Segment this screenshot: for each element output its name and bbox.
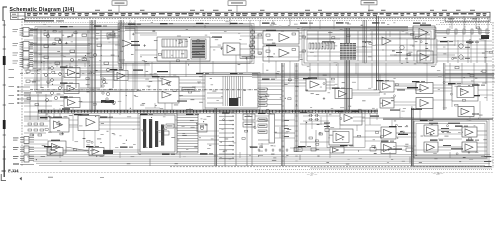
top-right box inner wires xyxy=(307,35,430,52)
far right wiring xyxy=(375,33,455,55)
op-amp IC8A block xyxy=(263,30,299,44)
dark label right xyxy=(474,95,480,96)
center-bottom extra wires xyxy=(300,121,329,151)
label IC4 xyxy=(212,37,222,38)
op-amp triangle x118 xyxy=(114,71,128,81)
bottom dashed line 1 xyxy=(170,166,493,168)
transistor Q21 xyxy=(396,45,404,53)
op-amp IC5 top-mid xyxy=(223,43,240,55)
svg-text:— 27 —: — 27 — xyxy=(307,172,317,176)
dark IC cluster right xyxy=(340,43,356,60)
comb ladder IC12 xyxy=(177,113,198,153)
input connector CN PHONO xyxy=(13,59,34,68)
page number 28 right xyxy=(433,172,443,176)
dark box bottom-left xyxy=(103,150,113,154)
transistor Q22 xyxy=(459,44,470,48)
vertical bundle x282 xyxy=(282,63,285,166)
op-amp block lower xyxy=(329,129,353,145)
horizontal bus B (middle) xyxy=(100,73,494,77)
right mid wiring grid xyxy=(445,63,495,84)
top-center reference box C xyxy=(361,1,377,13)
label under IC6 xyxy=(177,101,187,102)
horizontal bus D (right) xyxy=(383,118,493,119)
bar drop stubs xyxy=(60,17,478,18)
far-left signal labels xyxy=(9,69,41,104)
component box x109 xyxy=(107,33,115,37)
input connector stub (bottom4) xyxy=(13,164,34,165)
op-amp IC7B xyxy=(335,89,352,99)
vertical bundle x444 xyxy=(444,63,445,110)
vertical wires x225-252 xyxy=(225,110,252,166)
block concentric outlines xyxy=(35,24,489,167)
label 60Hz xyxy=(186,109,193,110)
top-left wiring grid xyxy=(33,30,118,88)
resistor array in top-right block xyxy=(309,43,335,49)
vertical dashed bundle right xyxy=(450,19,479,34)
op-amp D1 xyxy=(424,125,438,136)
vertical bundle x215 xyxy=(215,108,217,166)
op-amp bank row1 left xyxy=(380,81,394,92)
mid-left diodes xyxy=(45,66,62,102)
input connector CN TAPE2 xyxy=(13,51,34,60)
connector bar right tail block xyxy=(445,17,490,21)
op-amp D2 xyxy=(424,142,438,152)
label box TONE xyxy=(182,88,195,92)
right side wiring grid xyxy=(437,40,492,63)
bottom wire stubs xyxy=(60,152,450,158)
label between E1 E2 xyxy=(370,116,408,136)
small box B2 xyxy=(162,131,169,135)
op-amp bank row2 left xyxy=(380,98,394,108)
dash-dot line mid-left xyxy=(30,90,258,92)
component pair mid xyxy=(197,124,207,132)
vertical bundle x412 xyxy=(412,108,414,166)
top-right block outline xyxy=(304,29,434,63)
bottom-left dark block xyxy=(140,115,175,152)
page number 27 left xyxy=(307,172,317,176)
narrow tall rect x269 xyxy=(269,114,275,143)
connector table header xyxy=(11,13,26,20)
op-amp F1 bottom-left xyxy=(47,148,63,156)
interconnect wires xyxy=(33,19,487,152)
vertical bundle x365 xyxy=(363,20,366,63)
vertical bundle x296 xyxy=(295,63,298,152)
center block dark IC xyxy=(229,98,238,106)
board outline bottom dotted xyxy=(8,172,493,174)
right edge labels xyxy=(484,156,491,167)
op-amp D3 xyxy=(462,127,477,137)
label IC10 xyxy=(62,108,70,109)
wire junction dots xyxy=(36,37,479,160)
top right boxes of bottom-mid xyxy=(243,114,255,127)
dark label 74LS xyxy=(131,45,140,46)
dark label between op-amps xyxy=(397,87,418,91)
op-amp block TR area xyxy=(340,111,362,125)
op-amp E2 left of box xyxy=(381,143,396,154)
bottom fold mark triangle xyxy=(20,177,105,181)
resistor grid lower-left xyxy=(28,123,44,136)
top-right block wiring xyxy=(307,31,430,61)
resistor row far right xyxy=(447,29,488,34)
label RY04 dash-dot xyxy=(133,70,168,73)
IC4 hatched block xyxy=(191,39,206,59)
op-amp triangle x383 xyxy=(382,37,391,45)
dotted line under MODE SW xyxy=(24,22,135,24)
top connector bar CB1 xyxy=(25,12,490,17)
op-amp A1 xyxy=(64,68,80,78)
relay box K1 xyxy=(162,39,187,47)
top-mid block outline xyxy=(120,25,252,62)
coupling resistors around IC8 xyxy=(258,34,305,54)
connector bar pin labels xyxy=(27,13,486,16)
labels above connector bar xyxy=(95,9,475,12)
op-amp IC9 far right xyxy=(413,25,435,40)
op-amp A3 xyxy=(64,98,80,108)
label XTAL small xyxy=(284,120,289,137)
op-amp F2 bottom-left xyxy=(89,148,104,156)
nested return wires bottom xyxy=(24,155,493,166)
vertical bundle x347 xyxy=(345,28,350,112)
top-left discrete resistors xyxy=(44,33,115,64)
crystal X1 3.579 xyxy=(324,123,330,132)
bottom-left corner crop mark xyxy=(1,174,6,181)
board outline left dashed xyxy=(21,19,23,167)
bottom dashed line 2 xyxy=(255,168,493,170)
bottom-right outer box xyxy=(414,121,487,158)
box with triangle top-right xyxy=(458,107,479,117)
labels right of bus D xyxy=(390,109,422,111)
capacitor pairs center xyxy=(309,114,320,121)
bottom row capacitors xyxy=(258,149,289,153)
mid-left connector stubs xyxy=(17,86,30,104)
transistor Q23 xyxy=(459,55,470,59)
title Schematic Diagram (3/4) xyxy=(10,7,77,13)
op-amp bank row2 right xyxy=(416,98,433,109)
bundle tick marks xyxy=(282,66,298,161)
extra bottom dashes right xyxy=(310,167,492,169)
op-amp bank row1 right xyxy=(416,83,433,94)
right op-amp block xyxy=(452,84,478,101)
rounded label boxes xyxy=(258,118,267,133)
op-amp IC11 xyxy=(48,140,66,153)
right top dashed grid xyxy=(436,16,492,29)
top-center reference box B xyxy=(228,1,246,12)
op-amp A2 xyxy=(64,84,79,94)
input connector CN (bottom2) xyxy=(13,146,34,153)
top-left corner crop mark xyxy=(3,7,7,21)
input connector CN (bottom3) xyxy=(13,155,34,162)
page background xyxy=(0,0,500,182)
bottom row boxes right xyxy=(389,148,463,151)
input connector CN TAPE1 xyxy=(13,42,34,51)
board outline top dashed xyxy=(22,18,490,20)
dual op-amp block IC6 xyxy=(158,77,179,103)
horizontal bus A (top) xyxy=(125,26,490,32)
op-amp IC10B xyxy=(78,114,99,130)
op-amp E1 left of box xyxy=(381,127,396,139)
routing wire mesh xyxy=(24,20,493,152)
dark cluster under xyxy=(101,100,114,103)
center block stub wires xyxy=(207,93,223,103)
IC reference labels xyxy=(40,22,485,154)
label MODE SW (1/3) xyxy=(24,20,64,21)
center block vertical grid xyxy=(223,76,243,106)
bottom vertical joins xyxy=(150,155,410,167)
dark component blob far right xyxy=(481,35,489,39)
dash-dot feeder to bus B xyxy=(20,73,95,75)
vertical pair x377 xyxy=(377,16,379,90)
relay box K2 xyxy=(162,50,187,58)
op-amp IC10A xyxy=(50,117,69,132)
board outline right dashed xyxy=(492,22,494,168)
top-left block outline xyxy=(37,28,135,90)
scattered discrete components xyxy=(45,27,492,157)
left lower wiring xyxy=(24,93,52,121)
mid connector label boxes xyxy=(258,88,282,106)
value label scatter 2 xyxy=(27,21,489,164)
op-amp IC9B xyxy=(417,51,433,63)
top-center reference box A xyxy=(112,1,127,12)
svg-text:— 28 —: — 28 — xyxy=(433,172,443,176)
vertical bundle x120 xyxy=(119,20,123,70)
capacitor dots mid xyxy=(102,78,108,100)
input connector CN AUX (top) xyxy=(13,28,34,37)
op-amp IC8B block xyxy=(263,45,299,61)
top-left transistors xyxy=(44,34,109,99)
labels in bottom-right box xyxy=(429,123,460,146)
bottom horizontal wire band xyxy=(0,0,1,1)
vertical bundle x90 xyxy=(90,20,96,112)
left margin ruler xyxy=(2,20,6,177)
center block outline xyxy=(205,74,258,108)
input connector CN (bottom1) xyxy=(13,137,34,144)
small value labels scatter xyxy=(30,24,487,163)
op-amp IC7A xyxy=(306,78,326,91)
ladder rungs right of x219 xyxy=(219,111,234,159)
bottom row mid components xyxy=(294,147,389,154)
resistor chain x251 xyxy=(251,29,255,58)
svg-text:F-114: F-114 xyxy=(8,168,19,173)
op-amp small x130 xyxy=(122,40,139,47)
labels in top-right block xyxy=(322,41,371,42)
label box under op-amp xyxy=(240,55,252,58)
horizontal bus C (dark) xyxy=(38,110,378,113)
board outline secondary dashed xyxy=(140,19,490,21)
shielded input traces xyxy=(30,29,120,61)
op-amp D4 xyxy=(462,142,477,152)
drawing number F-114 xyxy=(8,168,19,173)
small box B1 xyxy=(166,124,174,128)
lower-left wiring xyxy=(24,119,48,133)
